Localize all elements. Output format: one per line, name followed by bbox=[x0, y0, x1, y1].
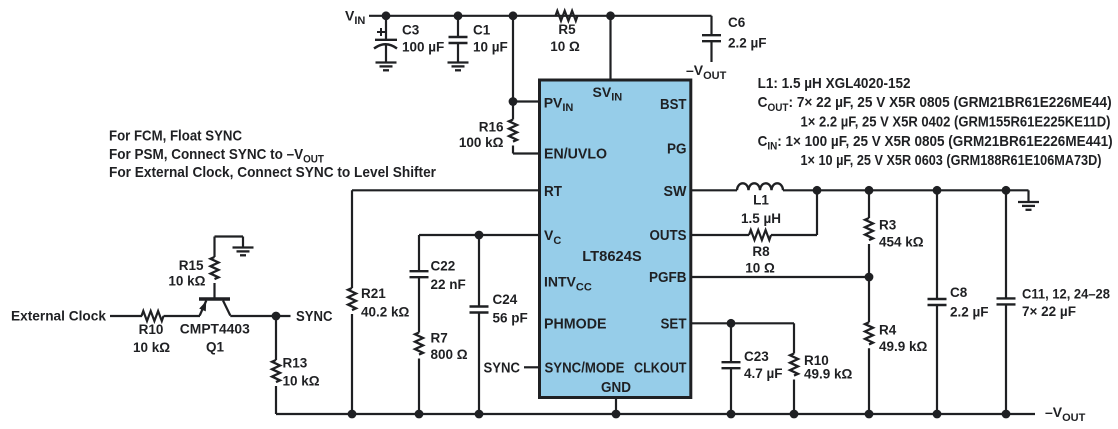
svg-text:External Clock: External Clock bbox=[11, 308, 106, 324]
resistor R15 bbox=[168, 237, 218, 289]
capacitor C3 bbox=[374, 16, 444, 71]
svg-text:PG: PG bbox=[667, 142, 687, 158]
svg-text:PHMODE: PHMODE bbox=[544, 316, 607, 332]
node VIN label bbox=[345, 7, 365, 27]
capacitor C23 bbox=[722, 323, 783, 414]
svg-text:10 Ω: 10 Ω bbox=[550, 39, 580, 54]
svg-text:SET: SET bbox=[661, 316, 687, 332]
svg-text:10 Ω: 10 Ω bbox=[745, 261, 775, 276]
junction dot SVIN branch bbox=[606, 11, 615, 20]
svg-text:100 µF: 100 µF bbox=[402, 40, 444, 55]
svg-text:RT: RT bbox=[544, 184, 562, 200]
inductor L1 bbox=[737, 183, 783, 226]
resistor R10b bbox=[790, 323, 853, 414]
wire R8 to node bbox=[771, 190, 817, 235]
wire ext clock bbox=[110, 315, 142, 317]
junction dot C24 bot bbox=[475, 410, 484, 419]
junction dot C24 top bbox=[475, 231, 484, 240]
svg-text:40.2 kΩ: 40.2 kΩ bbox=[361, 305, 410, 320]
svg-text:R8: R8 bbox=[752, 244, 770, 259]
svg-text:R5: R5 bbox=[558, 22, 576, 37]
ground (SW rail) bbox=[1018, 190, 1039, 210]
svg-text:49.9 kΩ: 49.9 kΩ bbox=[879, 339, 928, 354]
junction dot PGFB bbox=[865, 273, 874, 282]
junction dot R21 bot bbox=[348, 410, 357, 419]
svg-text:C22: C22 bbox=[431, 259, 456, 274]
wire GND pin bbox=[615, 398, 617, 415]
junction dot SYNC bbox=[272, 312, 281, 321]
svg-text:PGFB: PGFB bbox=[649, 270, 687, 286]
svg-text:C23: C23 bbox=[744, 349, 769, 364]
svg-text:SYNC/MODE: SYNC/MODE bbox=[545, 361, 625, 377]
wire SW bbox=[691, 189, 737, 191]
wire L1 to node bbox=[783, 189, 817, 191]
resistor R3 bbox=[865, 190, 924, 277]
junction dot C8 top bbox=[933, 186, 942, 195]
svg-text:R21: R21 bbox=[361, 286, 386, 301]
ground (R15) bbox=[215, 237, 254, 256]
wire SW rail bbox=[817, 189, 1029, 191]
wire -VOUT rail bbox=[276, 413, 1035, 415]
svg-text:GND: GND bbox=[601, 380, 631, 396]
svg-text:SW: SW bbox=[664, 184, 687, 200]
svg-text:LT8624S: LT8624S bbox=[582, 249, 642, 265]
svg-text:22 nF: 22 nF bbox=[431, 277, 466, 292]
junction dot C11 bot bbox=[1002, 410, 1011, 419]
junction dot R3 top bbox=[865, 186, 874, 195]
resistor R8 bbox=[745, 230, 775, 276]
svg-text:R4: R4 bbox=[879, 322, 897, 337]
node SYNC label bbox=[296, 309, 333, 325]
resistor R5 bbox=[550, 11, 580, 54]
note parts list bbox=[758, 75, 1113, 169]
svg-text:C6: C6 bbox=[728, 15, 746, 30]
svg-text:CMPT4403: CMPT4403 bbox=[180, 322, 251, 337]
junction dot C8 bot bbox=[933, 410, 942, 419]
svg-text:R7: R7 bbox=[431, 331, 448, 346]
svg-text:R13: R13 bbox=[283, 355, 308, 370]
junction dot R7 bot bbox=[415, 410, 424, 419]
svg-text:L1: 1.5 µH XGL4020-152: L1: 1.5 µH XGL4020-152 bbox=[758, 75, 911, 92]
svg-text:BST: BST bbox=[660, 97, 687, 113]
svg-text:OUTS: OUTS bbox=[650, 228, 687, 244]
wire PGFB bbox=[691, 276, 869, 278]
svg-text:4.7 µF: 4.7 µF bbox=[744, 366, 783, 381]
wire Q1 to SYNC node bbox=[230, 315, 290, 317]
svg-text:2.2 µF: 2.2 µF bbox=[728, 36, 767, 51]
capacitor C11 bbox=[997, 190, 1111, 414]
node -VOUT (C6) bbox=[686, 62, 727, 82]
svg-text:C1: C1 bbox=[473, 22, 491, 37]
wire VC bbox=[419, 235, 540, 271]
resistor R10 bbox=[133, 311, 170, 355]
capacitor C6 bbox=[702, 15, 767, 62]
note SYNC usage bbox=[109, 128, 436, 181]
resistor R16 bbox=[459, 102, 540, 154]
svg-text:C11, 12, 24–28: C11, 12, 24–28 bbox=[1022, 287, 1110, 302]
wire VIN rail bbox=[369, 15, 712, 17]
svg-text:For PSM, Connect SYNC to –VOUT: For PSM, Connect SYNC to –VOUT bbox=[109, 146, 324, 166]
junction dot C23 bot bbox=[727, 410, 736, 419]
wire PVIN drop bbox=[513, 16, 540, 102]
node External Clock label bbox=[11, 308, 106, 324]
junction dot PVIN branch bbox=[509, 11, 518, 20]
svg-text:1× 2.2 µF, 25 V X5R 0402 (GRM1: 1× 2.2 µF, 25 V X5R 0402 (GRM155R61E225K… bbox=[801, 113, 1111, 130]
resistor R13 bbox=[272, 316, 320, 414]
svg-text:10 kΩ: 10 kΩ bbox=[283, 373, 320, 388]
svg-text:C24: C24 bbox=[493, 292, 518, 307]
capacitor C8 bbox=[928, 190, 989, 414]
svg-text:For FCM, Float SYNC: For FCM, Float SYNC bbox=[109, 128, 242, 145]
capacitor C1 bbox=[448, 16, 508, 71]
svg-text:COUT: 7× 22 µF, 25 V X5R 0805: COUT: 7× 22 µF, 25 V X5R 0805 (GRM21BR61… bbox=[758, 94, 1112, 114]
svg-text:10 kΩ: 10 kΩ bbox=[168, 274, 205, 289]
svg-text:SYNC: SYNC bbox=[484, 361, 521, 377]
svg-text:C8: C8 bbox=[950, 285, 968, 300]
svg-text:R10: R10 bbox=[139, 322, 164, 337]
svg-text:1× 10 µF, 25 V X5R 0603 (GRM18: 1× 10 µF, 25 V X5R 0603 (GRM188R61E106MA… bbox=[801, 152, 1102, 169]
resistor R7 bbox=[415, 331, 468, 415]
junction dot C23 top bbox=[727, 319, 736, 328]
capacitor C22 bbox=[410, 259, 466, 333]
junction dot C11 top bbox=[1002, 186, 1011, 195]
wire SET bbox=[691, 322, 794, 324]
junction dot C1 top bbox=[454, 11, 463, 20]
junction dot R4 bot bbox=[865, 410, 874, 419]
junction dot C3 top bbox=[382, 11, 391, 20]
svg-text:CLKOUT: CLKOUT bbox=[634, 361, 687, 377]
node -VOUT (rail) bbox=[1045, 404, 1086, 424]
svg-text:Q1: Q1 bbox=[206, 340, 225, 355]
wire R10 to Q1 bbox=[164, 315, 201, 317]
svg-text:1.5 µH: 1.5 µH bbox=[741, 211, 781, 226]
junction dot GND bbox=[612, 410, 621, 419]
svg-text:10 µF: 10 µF bbox=[473, 40, 508, 55]
svg-text:100 kΩ: 100 kΩ bbox=[459, 135, 504, 150]
svg-text:2.2 µF: 2.2 µF bbox=[950, 305, 989, 320]
svg-text:49.9 kΩ: 49.9 kΩ bbox=[804, 367, 853, 382]
svg-text:56 pF: 56 pF bbox=[493, 311, 528, 326]
node SYNC pin label bbox=[484, 361, 540, 377]
resistor R21 bbox=[348, 286, 410, 414]
junction dot PVIN bbox=[509, 97, 518, 106]
svg-text:R16: R16 bbox=[479, 120, 504, 135]
wire OUTS bbox=[691, 234, 749, 236]
svg-text:C3: C3 bbox=[402, 22, 420, 37]
junction dot R10b bot bbox=[790, 410, 799, 419]
svg-text:R3: R3 bbox=[879, 217, 897, 232]
junction dot SW node bbox=[813, 186, 822, 195]
svg-text:L1: L1 bbox=[753, 193, 769, 208]
svg-text:800 Ω: 800 Ω bbox=[431, 347, 468, 362]
svg-text:10 kΩ: 10 kΩ bbox=[133, 340, 170, 355]
svg-text:CIN: 1× 100 µF, 25 V X5R 0805: CIN: 1× 100 µF, 25 V X5R 0805 (GRM21BR61… bbox=[758, 133, 1113, 153]
svg-text:R15: R15 bbox=[179, 258, 204, 273]
svg-text:EN/UVLO: EN/UVLO bbox=[544, 146, 607, 162]
capacitor C24 bbox=[470, 235, 528, 414]
wire SVIN drop bbox=[609, 16, 611, 80]
wire RT bbox=[352, 190, 540, 288]
svg-text:For External Clock, Connect SY: For External Clock, Connect SYNC to Leve… bbox=[109, 164, 436, 181]
transistor Q1 CMPT4403 bbox=[180, 283, 251, 355]
svg-text:454 kΩ: 454 kΩ bbox=[879, 234, 924, 249]
op-amp U1 LT8624S bbox=[540, 80, 691, 398]
svg-text:SYNC: SYNC bbox=[296, 309, 333, 325]
svg-text:7× 22 µF: 7× 22 µF bbox=[1022, 304, 1076, 319]
resistor R4 bbox=[865, 277, 928, 414]
